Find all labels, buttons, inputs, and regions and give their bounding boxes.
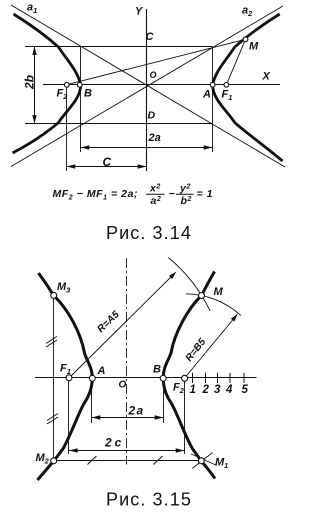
focal line F1-M [226,39,245,85]
svg-text:D: D [148,110,156,122]
svg-text:M: M [249,41,259,53]
point F1 (fig2) [66,375,72,381]
svg-text:4: 4 [225,384,233,396]
svg-text:1: 1 [190,384,196,396]
svg-text:2a: 2a [148,132,161,144]
dash-dot symmetry axis [126,258,128,465]
svg-text:C: C [146,31,155,43]
svg-text:a2: a2 [242,5,253,19]
vertical line M3-M2 [53,298,55,459]
svg-text:Рис. 3.14: Рис. 3.14 [106,223,192,243]
svg-text:= 1: = 1 [197,188,214,200]
extension below F1 [68,381,70,454]
right hyperbola branch [213,14,283,161]
asymptote a1 [11,5,285,167]
point M [243,37,248,42]
tick 4 [229,373,231,383]
focal line F2-M [67,39,246,84]
point A [210,82,215,87]
arrowhead of R=A5 [169,272,177,280]
svg-text:F2: F2 [173,382,185,396]
svg-text:2: 2 [202,384,210,396]
rectangle bottom side through D (extended left) [25,123,213,125]
2a dimension line [81,145,213,149]
svg-text:O: O [119,380,127,391]
X axis [43,84,280,86]
svg-text:y2: y2 [179,183,191,195]
arrowhead of R=B5 [231,314,238,322]
left hyperbola branch [13,14,81,153]
svg-text:O: O [150,70,157,80]
svg-text:2a: 2a [128,404,145,418]
tick 5 [243,373,245,383]
point M (fig2) [199,293,205,299]
point A (fig2) [89,375,95,381]
point B (fig2) [160,375,166,381]
big arc R=A5 [168,258,210,311]
2c dimension (fig2) [69,448,185,452]
radius line R=B5 from F2 [185,316,236,378]
2a dimension (fig2) [92,415,164,419]
point B [77,82,82,87]
cross stroke at M1 (shallow arc mark) [191,454,217,466]
svg-text:C: C [103,155,112,169]
svg-text:X: X [262,71,271,83]
svg-text:R=A5: R=A5 [95,309,122,335]
asymptote a2 [11,6,283,167]
2b dimension line [32,47,36,124]
svg-text:M: M [214,286,224,298]
extension below B [163,382,165,424]
svg-text:A: A [97,365,106,377]
svg-text:B: B [84,88,92,100]
extension line below F2 [66,86,68,171]
svg-text:5: 5 [242,384,249,396]
radius line R=A5 from F1 [69,274,174,378]
double slash mark upper on M3-M2 line [46,337,57,344]
cross stroke at M1 (steep arc mark) [192,453,212,469]
svg-text:F1: F1 [222,89,233,103]
tick 2 [205,373,207,383]
svg-text:MF2 − MF1 = 2a;: MF2 − MF1 = 2a; [53,188,139,202]
point F1 [224,82,229,87]
svg-text:a1: a1 [27,2,37,16]
extension below F2 [184,381,186,454]
svg-text:F1: F1 [60,363,71,377]
svg-text:R=B5: R=B5 [184,336,209,363]
svg-text:b2: b2 [181,195,192,207]
rectangle right side through A (extended down) [212,47,214,153]
rectangle left side through B (extended down) [80,47,82,153]
svg-text:Y: Y [135,6,144,18]
c dimension line [67,164,147,168]
svg-text:a2: a2 [151,195,162,207]
extension below A [91,382,93,424]
small arc R=B5 [186,294,241,316]
svg-text:A: A [202,89,211,101]
slash mark left on bottom line [88,456,97,465]
point M1 [198,458,204,464]
svg-text:M3: M3 [57,281,71,295]
svg-text:x2: x2 [149,183,161,195]
svg-text:3: 3 [214,384,221,396]
point F2 (fig2) [182,375,188,381]
Y axis [146,9,148,171]
tick 3 [217,373,219,383]
svg-text:2b: 2b [23,75,37,90]
right branch (fig2) [163,272,215,479]
X axis (fig2) [35,377,257,379]
point M3 [51,292,57,298]
bottom line M2-M1 [57,460,199,462]
svg-text:M2: M2 [36,452,50,466]
svg-text:2c: 2c [104,436,124,450]
double slash mark lower on M3-M2 line [47,414,58,421]
point M2 [51,458,57,464]
svg-text:Рис. 3.15: Рис. 3.15 [106,490,192,510]
left branch (fig2) [38,273,93,480]
svg-text:−: − [169,188,176,200]
rectangle top side through C (extended left) [25,46,213,48]
slash mark right on bottom line [154,456,163,465]
point F2 [64,82,69,87]
tick 1 [192,373,194,383]
svg-text:B: B [153,364,161,376]
svg-text:M1: M1 [215,457,228,471]
